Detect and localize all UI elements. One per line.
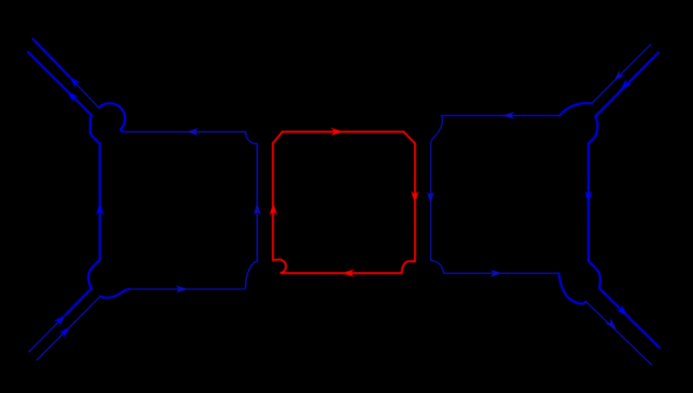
corner curve: left loop bottom-right steep S xyxy=(245,261,258,289)
propagator strand: red right vertical xyxy=(414,143,416,261)
wire: red loop bottom edge xyxy=(281,272,402,274)
arrow up on left loop left edge xyxy=(96,202,104,215)
fermion line: top-left outgoing leg upper strand, vertex side xyxy=(69,76,99,107)
fermion line: bottom-right outgoing leg upper strand xyxy=(599,288,659,347)
corner arc: left loop top-right concave xyxy=(246,132,258,144)
fermion line: bottom-left incoming leg upper strand, corner side xyxy=(29,315,66,352)
corner hook: red bottom-left curl xyxy=(273,260,286,273)
arrow on bottom-left upper leg (up-right) xyxy=(54,315,66,327)
arrow on bottom-right lower leg (down-right) xyxy=(605,318,617,330)
propagator strand: red left vertical xyxy=(272,143,274,260)
fermion line: top-left outgoing leg upper strand, corner side xyxy=(33,39,69,76)
vertex wrap arc: top-right vertex top side xyxy=(560,103,592,115)
corner hook: red bottom-right xyxy=(402,261,415,273)
arrow west on left loop top edge xyxy=(186,128,199,136)
vertex wrap: top-right vertex right side xyxy=(588,117,597,144)
fermion line: top-right incoming leg lower strand xyxy=(595,53,658,117)
arrow west on red bottom edge xyxy=(342,269,355,277)
arrow on top-left lower leg (up-left) xyxy=(67,91,79,103)
wire: red loop top edge xyxy=(282,131,403,133)
corner chamfer: red top-left xyxy=(273,132,283,144)
corner curve: right loop top-left steep S xyxy=(431,116,443,143)
wire: left loop top edge xyxy=(124,131,246,133)
arrow east on left loop bottom edge xyxy=(176,285,189,293)
vertex wrap: bottom-left vertex left side xyxy=(88,260,100,289)
arrow down on right inner vertical xyxy=(427,191,435,204)
arrow on bottom-right upper leg (down-right) xyxy=(616,305,628,317)
arrow on top-right lower leg (down-left) xyxy=(620,79,632,91)
corner arc: right loop bottom-left concave xyxy=(431,261,444,274)
wire: right loop top edge xyxy=(441,115,559,117)
vertex wrap arc: bottom-right vertex bottom side xyxy=(559,273,586,303)
arrow east on red top edge xyxy=(331,128,344,136)
vertex wrap arc: bottom-left vertex bottom side xyxy=(100,289,129,298)
arrow on top-left upper leg (up-left) xyxy=(69,76,81,88)
vertex wrap: top-left vertex left side xyxy=(90,116,100,144)
fermion line: bottom-left incoming leg upper strand, vertex side xyxy=(65,288,91,314)
wire: left loop bottom edge xyxy=(130,288,245,290)
arrow down on right loop right edge xyxy=(585,191,593,204)
arrow down on red right vertical xyxy=(411,191,419,204)
fermion line: top-right incoming leg upper strand xyxy=(592,44,651,103)
fermion line: bottom-left incoming leg lower strand xyxy=(37,296,100,360)
corner chamfer: red top-right xyxy=(404,132,416,144)
vertex blob arc: top-left vertex circle xyxy=(99,103,125,132)
arrow up on left inner vertical xyxy=(253,203,261,216)
fermion line: top-left outgoing leg lower strand xyxy=(28,52,92,116)
wire: right loop bottom edge xyxy=(444,272,559,274)
vertex wrap: bottom-right vertex right side xyxy=(588,261,600,288)
propagator strand: right inner vertical blue xyxy=(430,143,432,261)
wire: right loop right edge xyxy=(587,144,589,262)
arrow west on right loop top edge xyxy=(502,112,515,120)
arrow east on right loop bottom edge xyxy=(490,269,503,277)
fermion line: bottom-right outgoing leg lower strand xyxy=(586,302,652,365)
arrow up on red left vertical xyxy=(269,203,277,216)
arrow on top-right upper leg (down-left) xyxy=(614,70,626,82)
arrow on bottom-left lower leg (up-right) xyxy=(58,327,70,339)
wire: left loop left edge xyxy=(99,144,101,260)
propagator strand: left inner vertical blue xyxy=(256,144,258,262)
